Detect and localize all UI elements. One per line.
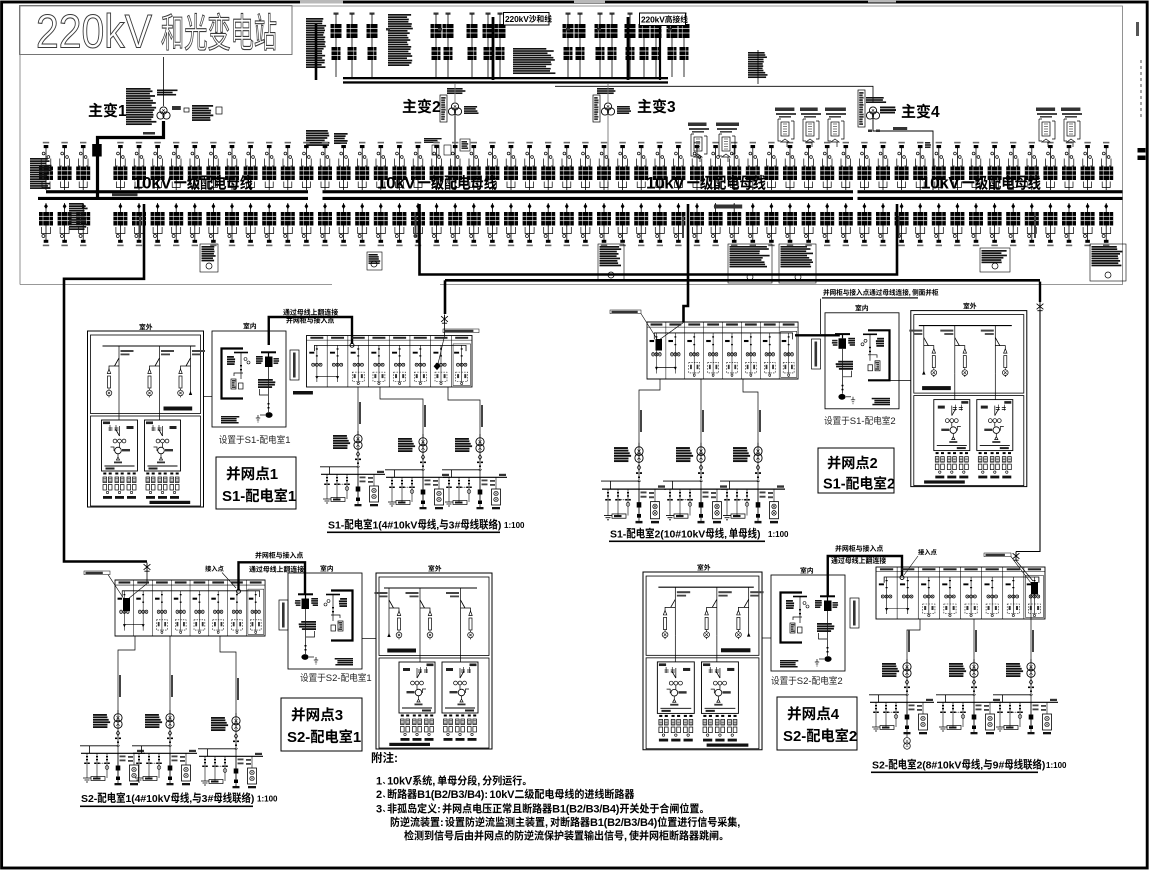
svg-text:1: 1 — [366, 673, 371, 684]
220kV double busbar — [343, 77, 668, 79]
lower 10kV feeder band — [39, 203, 53, 246]
svg-text:,: , — [432, 776, 435, 788]
svg-text:,: , — [624, 831, 627, 843]
overhead bus link U4 — [828, 556, 902, 597]
svg-text:S1-: S1- — [222, 488, 245, 505]
connector bus-tie A (under bus, x419-897) — [420, 204, 898, 275]
svg-text:S2-: S2- — [872, 760, 889, 772]
left long connector (x144 / x64) — [64, 204, 147, 562]
svg-text:B1(B2/B3/B4): B1(B2/B3/B4) — [552, 804, 620, 816]
svg-text:2: 2 — [432, 99, 441, 116]
connector to panel2 (x688) — [684, 204, 689, 323]
svg-text:,: , — [909, 288, 911, 297]
svg-text:1: 1 — [376, 776, 382, 788]
220kV tie line to T4 — [555, 86, 873, 103]
svg-text:220kV: 220kV — [505, 14, 529, 24]
svg-text:3#: 3# — [202, 793, 214, 805]
scan streaks top — [300, 0, 343, 4]
svg-text:S2-: S2- — [326, 673, 341, 684]
transformer feeders S2-1 — [118, 636, 135, 713]
svg-text:3: 3 — [335, 707, 343, 724]
title box — [20, 6, 293, 55]
svg-text:): ) — [1042, 760, 1046, 772]
svg-text:1:100: 1:100 — [1046, 761, 1067, 770]
interface cabinet box S1-1 — [212, 331, 286, 427]
svg-text:1:100: 1:100 — [504, 521, 525, 530]
transformer T2 主变2 — [403, 99, 417, 113]
overhead bus link U3 — [239, 562, 306, 594]
svg-text:1: 1 — [118, 103, 127, 120]
overhead bus link U1 — [269, 317, 352, 345]
svg-text:S2-: S2- — [783, 728, 806, 745]
outdoor PV box room S2-1 — [375, 573, 493, 749]
svg-text:,: , — [980, 760, 983, 772]
svg-text:3: 3 — [667, 99, 676, 116]
svg-text:1(4#10kV: 1(4#10kV — [126, 793, 171, 805]
svg-text:1: 1 — [288, 488, 296, 505]
svg-text:3: 3 — [376, 804, 382, 816]
outdoor PV box room S1-2 — [909, 311, 1027, 487]
svg-text:3#: 3# — [449, 520, 461, 532]
svg-text:,: , — [436, 520, 439, 532]
upper 10kV feeder band — [39, 142, 53, 190]
svg-text:4: 4 — [931, 104, 940, 121]
并网点4 label box — [777, 697, 857, 750]
svg-text:2: 2 — [870, 456, 878, 472]
svg-text:10kV: 10kV — [377, 174, 416, 193]
svg-text:10kV: 10kV — [133, 174, 172, 193]
capacitor bays above band — [689, 128, 709, 162]
svg-text:10kV: 10kV — [387, 776, 413, 788]
switchgear panel lineup S1-1 — [307, 336, 473, 387]
svg-text::: : — [440, 817, 444, 829]
interface cabinet box S2-2 — [771, 575, 845, 671]
svg-text:10kV: 10kV — [646, 174, 685, 193]
svg-text:B1(B2/B3/B4): B1(B2/B3/B4) — [590, 817, 658, 829]
220kV thick feeders — [315, 24, 318, 80]
switchgear panel lineup S2-1 — [115, 580, 265, 636]
svg-text:S2-: S2- — [287, 729, 310, 746]
svg-text:4: 4 — [831, 706, 840, 723]
interface cabinet box S2-1 — [288, 573, 362, 669]
svg-text:,: , — [724, 529, 727, 541]
10kV busbar row 2 — [38, 197, 308, 200]
svg-text:9#: 9# — [993, 760, 1005, 772]
svg-text:,: , — [477, 776, 480, 788]
svg-text:,: , — [737, 817, 740, 829]
svg-text:1: 1 — [285, 435, 290, 446]
transformer T3 主变3 — [638, 99, 652, 113]
svg-text:1: 1 — [353, 729, 361, 746]
interface cabinet box S1-2 — [825, 313, 899, 409]
svg-text:S2-: S2- — [797, 676, 812, 687]
switchgear panel lineup S1-2 — [647, 322, 798, 379]
transformer feeders S2-2 — [907, 619, 920, 662]
notes 附注 — [372, 752, 382, 763]
svg-text:220kV: 220kV — [641, 14, 665, 24]
svg-text:S2-: S2- — [81, 793, 98, 805]
svg-text:): ) — [498, 520, 502, 532]
switchgear panel lineup S2-2 — [876, 567, 1045, 619]
svg-text:2: 2 — [376, 789, 382, 801]
svg-text:B1(B2/B3/B4): B1(B2/B3/B4) — [417, 789, 485, 801]
connector C horizontal to right drop — [445, 279, 1040, 282]
deep clusters below bus — [200, 244, 218, 272]
top one-line diagram outer box — [20, 6, 1123, 285]
svg-text:2: 2 — [849, 728, 857, 745]
side bus link U2 — [795, 334, 840, 336]
right long connector (x1040) — [1039, 282, 1041, 302]
svg-text:1(4#10kV: 1(4#10kV — [373, 520, 418, 532]
outdoor PV box room S2-2 — [643, 572, 764, 750]
svg-text:2: 2 — [837, 676, 842, 687]
svg-text::: : — [437, 804, 441, 816]
outdoor PV box room S1-1 — [88, 331, 206, 507]
aux blocks near T2 — [306, 130, 328, 132]
10kV busbar row 1 — [46, 190, 308, 193]
220kV line label boxes — [504, 13, 550, 26]
svg-text:): ) — [251, 793, 255, 805]
misc small text under bus right — [714, 205, 742, 209]
svg-text:S1-: S1- — [610, 529, 627, 541]
svg-text:): ) — [757, 529, 761, 541]
svg-text:2: 2 — [890, 416, 895, 427]
svg-text:220kV: 220kV — [36, 5, 153, 58]
220kV bays — [331, 13, 342, 78]
svg-text:10kV: 10kV — [489, 789, 515, 801]
svg-text:S1-: S1- — [850, 416, 865, 427]
svg-text:,: , — [189, 793, 192, 805]
svg-text:1:100: 1:100 — [257, 795, 278, 804]
svg-text:2(10#10kV: 2(10#10kV — [655, 529, 706, 541]
并网点1 label box — [216, 457, 296, 509]
svg-text:2: 2 — [887, 477, 895, 493]
svg-text:2(8#10kV: 2(8#10kV — [917, 760, 962, 772]
svg-text:S1-: S1- — [328, 520, 345, 532]
svg-text::: : — [394, 751, 398, 765]
svg-text:1:100: 1:100 — [768, 530, 789, 539]
并网点2 label box — [818, 448, 894, 493]
svg-text:,: , — [545, 817, 548, 829]
并网点3 label box — [281, 698, 362, 751]
transformer T4 主变4 — [902, 104, 916, 118]
svg-text:S1-: S1- — [823, 477, 846, 493]
svg-text:1: 1 — [270, 466, 278, 483]
transformer feeders S1-1 — [357, 387, 359, 434]
svg-text:S1-: S1- — [245, 435, 260, 446]
svg-text::: : — [484, 789, 488, 801]
svg-text:10kV: 10kV — [921, 174, 960, 193]
transformer T1 主变1 — [89, 103, 103, 117]
transformer feeders S1-2 — [639, 379, 660, 446]
